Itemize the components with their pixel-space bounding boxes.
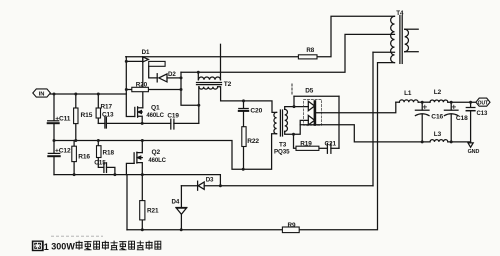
- svg-text:C13: C13: [477, 111, 488, 117]
- svg-text:IN: IN: [39, 91, 45, 97]
- svg-text:+C12: +C12: [55, 148, 71, 155]
- svg-text:R15: R15: [81, 112, 93, 119]
- svg-text:R19: R19: [300, 141, 312, 148]
- svg-text:460LC: 460LC: [146, 113, 164, 119]
- svg-text:PQ35: PQ35: [274, 149, 290, 156]
- svg-text:OUT: OUT: [478, 100, 489, 106]
- svg-text:C16: C16: [431, 114, 443, 121]
- svg-text:R20: R20: [136, 82, 148, 89]
- svg-text:T2: T2: [224, 81, 232, 88]
- svg-text:300W: 300W: [51, 241, 75, 251]
- svg-text:GND: GND: [468, 149, 480, 155]
- svg-text:D5: D5: [305, 88, 314, 95]
- svg-text:L1: L1: [404, 90, 412, 97]
- svg-text:Q2: Q2: [152, 149, 161, 156]
- svg-text:C21: C21: [325, 140, 337, 147]
- svg-text:R17: R17: [101, 104, 113, 111]
- svg-text:Q1: Q1: [151, 104, 160, 111]
- svg-text:R21: R21: [147, 208, 159, 215]
- svg-text:R18: R18: [103, 150, 115, 157]
- svg-text:C20: C20: [250, 107, 262, 114]
- svg-text:C18: C18: [456, 115, 468, 122]
- svg-text:+C11: +C11: [55, 116, 71, 123]
- svg-text:L2: L2: [434, 89, 442, 96]
- svg-text:460LC: 460LC: [148, 158, 166, 164]
- svg-text:D3: D3: [206, 176, 214, 183]
- svg-text:D2: D2: [168, 71, 176, 78]
- svg-text:R22: R22: [247, 138, 259, 145]
- svg-text:D1: D1: [142, 49, 150, 56]
- svg-text:D4: D4: [172, 199, 180, 206]
- svg-text:T3: T3: [279, 141, 287, 148]
- svg-text:C15: C15: [94, 159, 106, 166]
- svg-text:C19: C19: [167, 112, 179, 119]
- svg-text:T4: T4: [396, 10, 404, 17]
- svg-text:R9: R9: [288, 222, 297, 229]
- svg-text:R16: R16: [78, 153, 90, 160]
- svg-text:1: 1: [44, 242, 49, 252]
- svg-text:R8: R8: [306, 47, 314, 54]
- svg-text:L3: L3: [434, 131, 442, 138]
- svg-text:C13: C13: [102, 112, 114, 119]
